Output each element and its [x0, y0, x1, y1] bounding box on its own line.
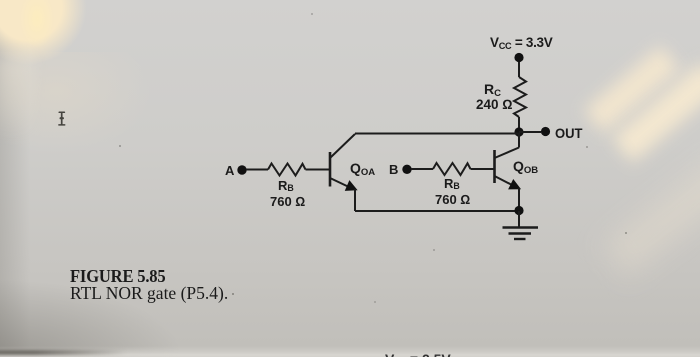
- node OUT label: [555, 125, 582, 141]
- bottom light strip: [0, 346, 700, 357]
- wire node to OUT: [519, 131, 541, 133]
- wire Vcc to Rc: [518, 62, 520, 77]
- figure caption title: [70, 266, 166, 287]
- label resistor RB (input A) designator: [278, 178, 294, 193]
- transistor QOA emitter lead: [330, 178, 350, 188]
- top-left cream reflection: [0, 0, 92, 83]
- resistor RB (B): [433, 163, 471, 175]
- wire RB to QOB base: [471, 168, 495, 170]
- emitter junction dot: [514, 206, 523, 215]
- top wire collector QOA to node: [355, 133, 519, 135]
- dust specks: [232, 293, 234, 295]
- wire QOB collector riser to OUT node: [518, 133, 520, 148]
- bottom partial text V = 2.5V: [385, 351, 451, 357]
- label transistor QOA designator: [350, 160, 375, 176]
- label VCC = 3.3V supply: [490, 35, 552, 50]
- transistor QOB emitter lead: [495, 176, 515, 186]
- resistor RB (A): [268, 164, 306, 176]
- transistor QOB emitter arrow: [509, 181, 519, 189]
- wire QOA emitter down: [354, 189, 356, 211]
- bottom-left corner darkening: [0, 250, 260, 357]
- node OUT junction dot: [514, 127, 523, 136]
- label resistor RC designator: [484, 81, 501, 97]
- wire RB to QOA base: [306, 169, 331, 171]
- value label 760 ohm for RB (input B): [435, 192, 470, 207]
- wire QOB emitter down: [518, 188, 520, 211]
- figure caption subtitle: [70, 283, 228, 304]
- transistor QOB collector lead: [495, 148, 520, 159]
- ground: [518, 211, 520, 227]
- wire A to RB: [246, 169, 268, 171]
- transistor QOB base bar: [493, 150, 496, 183]
- resistor RC: [514, 77, 526, 117]
- node B input label: [389, 162, 398, 177]
- input B terminal dot: [402, 165, 411, 174]
- OUT terminal dot: [541, 127, 550, 136]
- Vcc node dot: [514, 53, 523, 62]
- value label 240 ohm for RC: [476, 97, 513, 112]
- right diagonal streak 1: [584, 46, 680, 133]
- bottom wire emitters: [355, 210, 519, 212]
- bottom-left dark bar: [0, 350, 126, 355]
- value label 760 ohm for RB (input A): [270, 194, 305, 209]
- faint lower right streak: [603, 153, 700, 277]
- wire Rc to node: [518, 117, 520, 133]
- node A input label: [225, 163, 234, 178]
- transistor QOA base bar: [329, 152, 332, 187]
- left edge slight dark: [0, 0, 30, 357]
- label resistor RB (input B) designator: [444, 176, 460, 191]
- input A terminal dot: [237, 165, 246, 174]
- I-beam cursor: [56, 109, 70, 129]
- wire B to RB: [411, 168, 433, 170]
- right diagonal streak 2: [612, 62, 700, 162]
- label transistor QOB designator: [513, 158, 538, 174]
- transistor QOA collector lead: [330, 134, 355, 158]
- transistor QOA emitter arrow: [346, 182, 356, 190]
